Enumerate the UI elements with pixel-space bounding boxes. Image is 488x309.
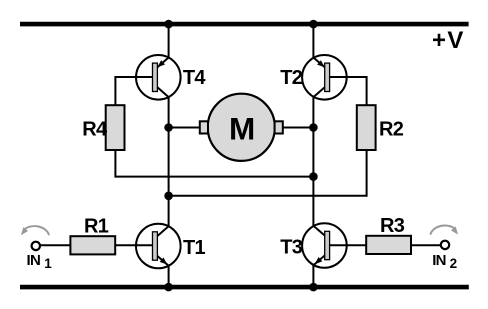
svg-text:IN: IN — [432, 252, 446, 269]
svg-text:T3: T3 — [280, 237, 303, 259]
svg-text:2: 2 — [450, 256, 457, 271]
svg-text:R4: R4 — [82, 119, 108, 141]
svg-text:R3: R3 — [380, 215, 405, 237]
svg-text:T2: T2 — [280, 67, 303, 89]
svg-text:1: 1 — [44, 256, 52, 271]
svg-text:T4: T4 — [183, 67, 207, 89]
svg-text:R1: R1 — [84, 216, 109, 238]
svg-text:IN: IN — [27, 252, 41, 269]
svg-text:M: M — [229, 110, 255, 146]
svg-text:R2: R2 — [379, 119, 404, 141]
svg-text:+V: +V — [432, 27, 465, 54]
svg-text:T1: T1 — [183, 237, 206, 259]
